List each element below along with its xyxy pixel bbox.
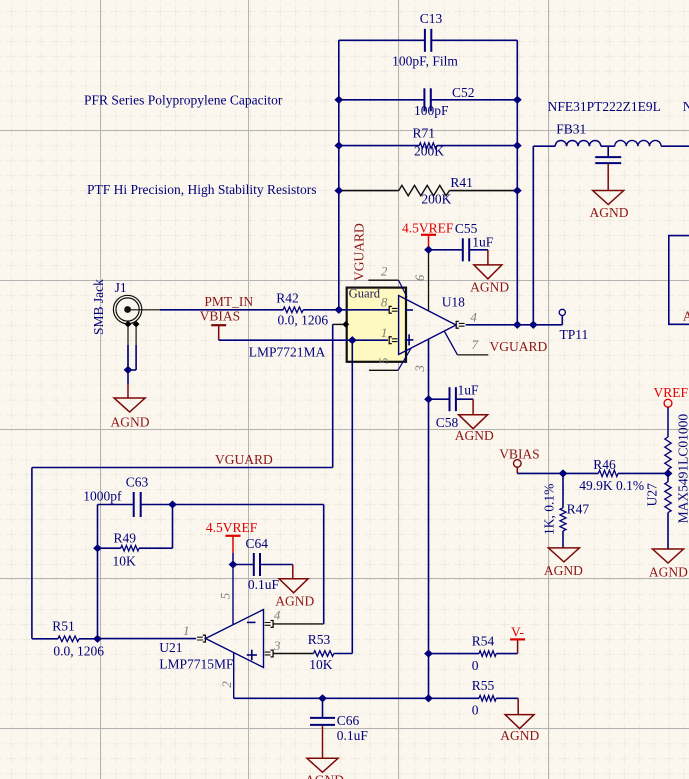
wire R42 to guard box (pin 8 / -IN) <box>303 309 389 311</box>
svg-text:4: 4 <box>470 310 477 325</box>
svg-text:10K: 10K <box>113 553 137 568</box>
pin 4 output arrow <box>456 321 459 328</box>
svg-text:U21: U21 <box>159 640 182 655</box>
svg-text:3: 3 <box>412 365 427 373</box>
power port VREF <box>654 385 689 437</box>
node: junction pin3 rail / bottom <box>424 694 433 702</box>
svg-text:C13: C13 <box>420 11 443 26</box>
svg-text:AGND: AGND <box>275 594 314 609</box>
svg-text:AGND: AGND <box>470 279 509 294</box>
wire left rail of feedback network <box>338 40 340 310</box>
svg-text:AGND: AGND <box>649 565 688 580</box>
svg-text:NFE31PT222Z1E9L: NFE31PT222Z1E9L <box>548 99 661 114</box>
svg-text:VREF: VREF <box>654 385 689 400</box>
svg-text:3: 3 <box>273 638 281 653</box>
op-amp U18 minus input marker <box>405 309 413 311</box>
node: junction output / right rail <box>513 321 522 329</box>
svg-text:C66: C66 <box>337 713 360 728</box>
wire junction to C58 <box>429 398 450 400</box>
svg-text:AGND: AGND <box>590 205 629 220</box>
svg-text:MAX5491LC01000: MAX5491LC01000 <box>676 414 689 524</box>
ground AGND (C66) <box>305 758 344 779</box>
svg-text:7: 7 <box>472 337 479 352</box>
wire cap to AGND <box>607 164 609 191</box>
wire C63 loop left vertical <box>97 505 99 639</box>
node: junction pin6/C55 <box>424 246 433 254</box>
wire VGUARD left rail down <box>31 468 33 639</box>
wire VBIAS down to R53 <box>351 340 353 653</box>
node: junction R49 left <box>93 544 102 552</box>
svg-text:C52: C52 <box>452 85 475 100</box>
svg-text:0: 0 <box>472 703 479 718</box>
svg-text:FB31: FB31 <box>556 122 586 137</box>
node: junction U27 mid tap <box>664 469 673 477</box>
wire guard pin stub <box>333 323 346 325</box>
svg-text:SMB Jack: SMB Jack <box>91 279 106 335</box>
svg-text:R71: R71 <box>413 126 436 141</box>
resistor R55 0 <box>472 678 518 717</box>
svg-text:AGND: AGND <box>111 415 150 430</box>
svg-text:1K, 0.1%: 1K, 0.1% <box>542 484 557 535</box>
capacitor C66 0.1uF <box>310 698 368 743</box>
pin 4 wire (U21 top input) <box>271 621 274 628</box>
op-amp U21 triangle <box>206 610 264 668</box>
wire guard net down to VGUARD wire <box>332 324 334 467</box>
svg-text:4.5VREF: 4.5VREF <box>206 520 258 535</box>
svg-text:NFE31PT222Z1E9L: NFE31PT222Z1E9L <box>683 99 689 114</box>
svg-text:200K: 200K <box>414 144 444 159</box>
power port VBIAS (right) <box>499 447 540 474</box>
connector J1 SMB Jack <box>91 279 142 335</box>
resistor R53 10K <box>308 632 353 672</box>
wire J1 junction to AGND <box>127 370 129 384</box>
power port 4.5VREF (U18) <box>402 220 454 249</box>
svg-text:5: 5 <box>217 592 232 599</box>
op-amp U21 minus input marker <box>247 621 256 623</box>
pin 7 wire (VGUARD) <box>445 332 458 355</box>
pin 2 wire (guard top) <box>368 279 398 281</box>
node: junction C66 <box>318 694 327 702</box>
svg-text:R55: R55 <box>472 678 495 693</box>
node: junction PMT_IN rail <box>334 306 343 314</box>
capacitor (filter cap under FB31) <box>595 146 621 163</box>
wire right rail of feedback network <box>516 40 518 325</box>
svg-text:1: 1 <box>183 623 190 638</box>
resistor R41 200K <box>399 175 473 207</box>
wire R71 row <box>339 145 419 147</box>
resistor R49 10K <box>98 530 173 568</box>
pin pad guard <box>342 321 349 328</box>
component U-box (cut off at right edge) <box>669 236 689 325</box>
wire VBIAS to pin 1 (+IN) <box>219 339 388 341</box>
wire C64 to AGND <box>260 564 293 566</box>
wire C52 row <box>339 99 425 101</box>
capacitor C52 <box>414 85 475 118</box>
op-amp U18 triangle <box>399 296 456 355</box>
resistor divider U27 (bottom half) <box>645 414 689 549</box>
wire VBIAS to R46 <box>517 472 598 474</box>
wire between FB31 coils <box>601 145 615 147</box>
svg-text:V-: V- <box>511 624 525 639</box>
pin 5 wire (guard bottom) <box>369 369 398 371</box>
wire J1 center to R42 <box>131 309 160 311</box>
svg-text:100pF, Film: 100pF, Film <box>392 54 458 69</box>
wire junction to C64 <box>233 564 254 566</box>
svg-text:AGND: AGND <box>544 563 583 578</box>
test point TP11 <box>559 309 588 342</box>
pin 5 wire (U21) <box>232 565 234 625</box>
wire R41 row <box>339 190 399 192</box>
wire R49 right vertical <box>172 505 174 549</box>
pin 2 wire (U21) <box>233 653 235 699</box>
node: junction right rail / R71 <box>513 142 522 150</box>
svg-text:U27: U27 <box>645 483 660 506</box>
svg-text:AGND: AGND <box>500 728 539 743</box>
node: junction right rail / C52 <box>513 96 522 104</box>
svg-text:2: 2 <box>219 681 234 688</box>
svg-text:0: 0 <box>472 658 479 673</box>
svg-text:PMT_IN: PMT_IN <box>204 294 253 309</box>
capacitor C64 0.1uF <box>246 536 280 592</box>
svg-text:49.9K 0.1%: 49.9K 0.1% <box>579 478 644 493</box>
wire R55 to AGND <box>517 698 519 714</box>
pin 3 wire (V-) down the middle <box>428 340 430 699</box>
svg-text:U18: U18 <box>442 295 465 310</box>
svg-text:C64: C64 <box>246 536 269 551</box>
svg-text:8: 8 <box>381 295 388 310</box>
wire right rail down to pin 4 <box>323 505 325 624</box>
wire bottom rail <box>234 697 479 699</box>
pin 6 wire (V+) <box>428 250 430 311</box>
svg-text:VBIAS: VBIAS <box>200 309 241 324</box>
power port V- <box>510 624 525 653</box>
svg-text:0.1uF: 0.1uF <box>337 728 369 743</box>
wire U18 output <box>466 324 563 326</box>
node: junction output / FB31 branch <box>529 321 538 329</box>
node: junction C63/R49 right <box>168 500 177 508</box>
wire FB31 output to right edge <box>661 145 689 147</box>
svg-text:LMP7721MA: LMP7721MA <box>249 345 326 360</box>
power port 4.5VREF (U21) <box>206 520 258 564</box>
wire J1 ground pins down <box>127 326 129 370</box>
svg-text:200K: 200K <box>421 192 451 207</box>
node: junction pin3 / C58 <box>424 395 433 403</box>
node: junction pin5/C64 <box>229 560 238 568</box>
wire from U18 output up to FB31 <box>532 146 534 325</box>
ground AGND (C55) <box>470 265 509 294</box>
op-amp U18 plus input marker <box>405 339 414 341</box>
svg-text:LMP7715MF: LMP7715MF <box>159 657 234 672</box>
svg-text:R41: R41 <box>450 175 473 190</box>
svg-text:R46: R46 <box>593 457 616 472</box>
svg-text:VGUARD: VGUARD <box>351 223 366 281</box>
svg-text:1000pf: 1000pf <box>83 489 122 504</box>
svg-text:AG: AG <box>683 309 689 324</box>
resistor R46 49.9K 0.1% <box>579 457 644 493</box>
svg-text:R47: R47 <box>567 502 590 517</box>
inductor FB31 NFE31PT222Z1E9L <box>548 99 661 146</box>
node: junction R51 / feedback <box>93 635 102 643</box>
svg-text:AGND: AGND <box>455 428 494 443</box>
svg-text:0.0, 1206: 0.0, 1206 <box>278 313 329 328</box>
capacitor C13 <box>392 11 458 69</box>
ground AGND (C64) <box>275 579 314 609</box>
svg-text:R54: R54 <box>472 634 495 649</box>
node: junction right rail / R41 <box>513 187 522 195</box>
resistor divider U27 MAX5491LC01000 (top half) <box>665 437 671 473</box>
svg-text:5: 5 <box>376 357 391 364</box>
ground AGND (FB31 filter) <box>590 191 629 221</box>
node: junction J1 ground <box>124 366 133 374</box>
resistor R47 1K, 0.1% <box>542 473 590 548</box>
svg-text:1: 1 <box>381 325 388 340</box>
svg-text:VBIAS: VBIAS <box>499 447 540 462</box>
ground AGND (J1) <box>111 398 150 430</box>
ground AGND (R47) <box>544 548 583 578</box>
svg-text:1uF: 1uF <box>458 383 480 398</box>
capacitor C63 1000pf <box>83 474 148 517</box>
svg-text:R51: R51 <box>52 619 75 634</box>
pin pads of J1 <box>125 321 132 328</box>
svg-text:VGUARD: VGUARD <box>215 452 273 467</box>
wire C66 to AGND <box>322 725 324 758</box>
node: junction left rail / R41 <box>334 187 343 195</box>
resistor R42 0.0, 1206 <box>276 291 328 328</box>
svg-text:0.1uF: 0.1uF <box>248 577 280 592</box>
resistor R71 200K <box>413 126 445 159</box>
ground AGND (U27) <box>649 549 688 580</box>
wire C63 top row <box>98 504 134 506</box>
op-amp U21 plus input marker <box>247 654 257 656</box>
svg-text:6: 6 <box>412 274 427 281</box>
svg-text:1uF: 1uF <box>472 234 494 249</box>
svg-text:R42: R42 <box>276 291 299 306</box>
svg-text:C63: C63 <box>126 474 149 489</box>
wire R46 to U27 <box>618 472 668 474</box>
svg-text:100pF: 100pF <box>414 103 449 118</box>
pin 1 arrow (non-inverting input) <box>389 337 392 344</box>
ground AGND (R55) <box>500 715 539 743</box>
node: junction VBIAS split <box>348 336 357 344</box>
svg-text:J1: J1 <box>115 280 127 295</box>
node: junction R54 tap <box>424 650 433 658</box>
wire C58 to AGND <box>456 398 473 400</box>
pin 8 arrow (inverting input) <box>389 306 392 313</box>
node: junction left rail / R71 <box>334 142 343 150</box>
pin 3 wire (U21 bottom input) <box>271 650 274 657</box>
wire junction to C55 <box>429 249 463 251</box>
svg-text:PFR Series Polypropylene Capac: PFR Series Polypropylene Capacitor <box>84 93 283 108</box>
wire C55 to AGND <box>469 249 488 251</box>
node: junction R47 tap <box>559 469 568 477</box>
svg-text:PTF Hi Precision, High Stabili: PTF Hi Precision, High Stability Resisto… <box>87 182 317 197</box>
svg-text:0.0, 1206: 0.0, 1206 <box>53 643 104 658</box>
wire C13 row top <box>339 39 425 41</box>
svg-text:4.5VREF: 4.5VREF <box>402 220 454 235</box>
power port VBIAS (left) <box>200 309 241 341</box>
capacitor C58 1uF <box>436 383 479 430</box>
resistor R54 0 <box>429 634 518 673</box>
svg-text:VGUARD: VGUARD <box>490 339 548 354</box>
resistor R51 0.0, 1206 <box>32 619 104 659</box>
svg-text:R53: R53 <box>308 632 331 647</box>
svg-text:TP11: TP11 <box>560 327 589 342</box>
capacitor C55 1uF <box>455 221 494 261</box>
svg-text:10K: 10K <box>309 657 333 672</box>
svg-text:2: 2 <box>381 263 388 278</box>
ground AGND (C58) <box>455 415 494 443</box>
pin 1 output arrow <box>203 635 206 642</box>
svg-text:Guard: Guard <box>349 286 381 300</box>
svg-text:R49: R49 <box>114 530 137 545</box>
wire VGUARD horizontal <box>32 467 333 469</box>
svg-text:AGND: AGND <box>305 773 344 779</box>
svg-text:4: 4 <box>274 608 281 623</box>
op-amp U18 guard box <box>347 288 406 362</box>
node: junction left rail / C52 <box>334 96 343 104</box>
